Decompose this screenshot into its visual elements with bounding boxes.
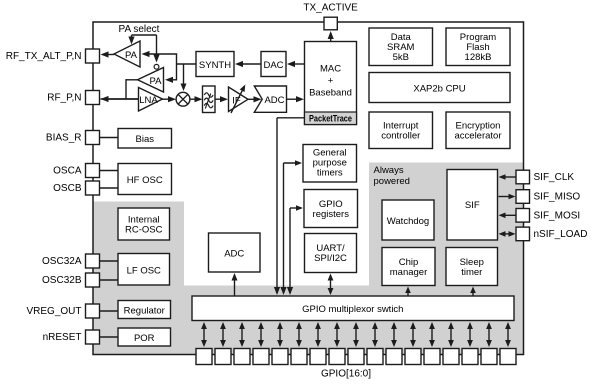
wire PA1 out to RF_TX_ALT pin <box>103 54 115 56</box>
svg-text:OSC32A: OSC32A <box>42 256 82 267</box>
wire SYNTH to mixer <box>183 64 185 89</box>
wire UART to GPIO mux <box>330 276 332 294</box>
svg-text:128kB: 128kB <box>465 52 492 63</box>
wire GPIO5 to mux <box>412 324 414 345</box>
pin GPIO10 <box>310 349 326 365</box>
block HF OSC <box>118 164 172 195</box>
always-powered domain (right block) <box>369 163 524 287</box>
wire GPIO13 to mux <box>260 324 262 345</box>
block Data SRAM 5kB <box>369 28 433 66</box>
svg-text:PacketTrace: PacketTrace <box>309 114 352 124</box>
block GPIO registers <box>304 190 358 228</box>
adc RF ADC <box>254 86 286 112</box>
pin GPIO14 <box>234 349 250 365</box>
wire GPIO3 to mux <box>450 324 452 345</box>
pin RF_TX_ALT_P,N <box>86 49 100 63</box>
pin GPIO6 <box>386 349 402 365</box>
svg-text:Regulator: Regulator <box>124 305 165 316</box>
wire DAC to SYNTH <box>237 63 261 65</box>
wire MAC to GPIO mux <box>277 117 305 119</box>
svg-text:Watchdog: Watchdog <box>387 216 429 227</box>
pin OSC32B <box>86 273 100 287</box>
wire nRESET stub <box>100 336 119 338</box>
wire RF_P_N <box>103 98 139 100</box>
svg-text:accelerator: accelerator <box>455 131 502 142</box>
wire SIF_MOSI <box>501 214 516 216</box>
block General purpose timers <box>303 145 357 183</box>
svg-text:PA: PA <box>150 76 163 87</box>
wire GPIO registers to GPIO mux <box>289 208 291 293</box>
chip boundary <box>93 22 524 355</box>
wire filter to IF amp <box>215 98 226 100</box>
wire PA2 out elbow <box>126 79 138 81</box>
wire GPIO10 to mux <box>317 324 319 345</box>
wire ADC to MAC <box>287 98 303 100</box>
wire GPIO mux to ADC <box>234 275 236 296</box>
pin GPIO3 <box>443 349 459 365</box>
wire GPIO8 to mux <box>355 324 357 345</box>
pin nRESET <box>86 330 100 344</box>
wire GPIO2 to mux <box>469 324 471 345</box>
svg-text:PA: PA <box>125 50 138 61</box>
wire BIAS_R stub <box>100 137 119 139</box>
wire VREG_OUT stub <box>100 310 119 312</box>
svg-text:MAC: MAC <box>320 64 341 75</box>
svg-text:RF_P,N: RF_P,N <box>47 93 81 104</box>
wire into PA1 <box>144 53 177 55</box>
wire MAC to TX_ACTIVE pin <box>330 33 332 42</box>
wire SIF_CLK <box>501 176 516 178</box>
block Sleep timer <box>446 248 498 286</box>
svg-text:nSIF_LOAD: nSIF_LOAD <box>534 229 588 240</box>
PA select net <box>132 34 157 36</box>
pin BIAS_R <box>86 131 100 145</box>
block SYNTH <box>196 52 234 77</box>
svg-text:VREG_OUT: VREG_OUT <box>26 306 81 317</box>
wire OSCB stub <box>100 187 119 189</box>
svg-text:SYNTH: SYNTH <box>199 60 231 71</box>
block GPIO multiplexor swtich <box>192 296 514 321</box>
svg-text:XAP2b CPU: XAP2b CPU <box>413 84 465 95</box>
pin GPIO1 <box>481 349 497 365</box>
wire timers to GPIO mux <box>283 163 285 293</box>
wire GPIO9 to mux <box>336 324 338 345</box>
always-powered domain (left strip) <box>93 202 184 355</box>
wire mixer to filter <box>190 98 201 100</box>
wire GPIO12 to mux <box>279 324 281 345</box>
mixer <box>176 92 190 106</box>
pin GPIO9 <box>329 349 345 365</box>
IF gain arrow <box>231 86 244 113</box>
wire OSC32A stub <box>100 260 119 262</box>
block SIF <box>447 170 498 241</box>
svg-text:RF_TX_ALT_P,N: RF_TX_ALT_P,N <box>6 51 82 62</box>
svg-text:SPI/I2C: SPI/I2C <box>314 253 347 264</box>
wire GPIO14 to mux <box>241 324 243 345</box>
pin GPIO2 <box>462 349 478 365</box>
always-powered domain (bottom band) <box>183 286 524 355</box>
amp PA2 <box>138 68 164 93</box>
svg-text:OSCB: OSCB <box>53 183 82 194</box>
block Bias <box>118 129 172 149</box>
pin OSCA <box>86 164 100 178</box>
svg-text:RC-OSC: RC-OSC <box>125 225 163 236</box>
svg-text:BIAS_R: BIAS_R <box>46 133 82 144</box>
wire LNA to mixer <box>163 98 175 100</box>
pin TX_ACTIVE <box>324 17 337 30</box>
pin nSIF_LOAD <box>516 227 530 241</box>
svg-text:ADC: ADC <box>264 95 284 106</box>
block XAP2b CPU <box>369 73 510 103</box>
wire GPIO11 to mux <box>298 324 300 345</box>
svg-text:controller: controller <box>381 131 420 142</box>
PA select to PA2 enable <box>156 35 158 61</box>
pin GPIO8 <box>348 349 364 365</box>
pin GPIO0 <box>500 349 516 365</box>
block DAC <box>261 52 286 77</box>
svg-text:timer: timer <box>461 267 482 278</box>
block Encryption accelerator <box>446 112 510 149</box>
pin SIF_MISO <box>516 190 530 204</box>
wire nSIF_LOAD <box>501 233 514 235</box>
wire GPIO mux to Sleep timer <box>472 289 474 297</box>
pin VREG_OUT <box>86 304 100 318</box>
wire SYNTH output <box>177 63 197 65</box>
wire GPIO16 to mux <box>203 324 205 345</box>
block ADC (general purpose) <box>209 233 261 272</box>
amp IF <box>229 87 249 112</box>
pin SIF_CLK <box>516 170 530 184</box>
svg-text:DAC: DAC <box>263 60 283 71</box>
svg-text:SIF_MISO: SIF_MISO <box>534 192 581 203</box>
svg-text:SIF: SIF <box>465 200 480 211</box>
block Interrupt controller <box>369 112 433 149</box>
svg-text:TX_ACTIVE: TX_ACTIVE <box>303 3 358 14</box>
amp LNA <box>139 88 163 112</box>
wire SIF_MISO <box>499 196 514 198</box>
pin OSCB <box>86 181 100 195</box>
pin GPIO16 <box>196 349 212 365</box>
svg-text:OSC32B: OSC32B <box>42 275 82 286</box>
wire IF to ADC <box>248 98 260 100</box>
svg-text:SIF_MOSI: SIF_MOSI <box>534 211 581 222</box>
block POR <box>118 328 171 346</box>
wire MAC to DAC <box>289 63 305 65</box>
svg-text:LF OSC: LF OSC <box>127 265 161 276</box>
svg-text:manager: manager <box>390 267 428 278</box>
pin GPIO5 <box>405 349 421 365</box>
pin GPIO13 <box>253 349 269 365</box>
svg-text:Baseband: Baseband <box>309 88 352 99</box>
svg-text:nRESET: nRESET <box>43 332 82 343</box>
svg-text:LNA: LNA <box>139 95 158 106</box>
wire OSC32B stub <box>100 279 119 281</box>
block Program Flash 128kB <box>446 28 510 66</box>
filter (IF bandpass) <box>203 86 216 113</box>
wire OSCA stub <box>100 170 119 172</box>
svg-text:OSCA: OSCA <box>53 166 82 177</box>
svg-text:powered: powered <box>374 176 410 187</box>
block Watchdog <box>382 200 434 240</box>
svg-text:registers: registers <box>313 209 350 220</box>
wire GPIO0 to mux <box>507 324 509 345</box>
wire GPIO15 to mux <box>222 324 224 345</box>
pin SIF_MOSI <box>516 209 530 223</box>
wire GPIO4 to mux <box>431 324 433 345</box>
pin GPIO15 <box>215 349 231 365</box>
pin GPIO7 <box>367 349 383 365</box>
pin RF_P,N <box>86 91 100 105</box>
svg-text:+: + <box>328 76 334 87</box>
wire into PA2 <box>167 79 177 81</box>
svg-text:Bias: Bias <box>136 134 155 145</box>
block UART/SPI/I2C <box>305 234 357 273</box>
block LF OSC <box>118 254 170 286</box>
wire GPIO7 to mux <box>374 324 376 345</box>
pin GPIO4 <box>424 349 440 365</box>
svg-text:HF OSC: HF OSC <box>127 175 163 186</box>
svg-text:PA select: PA select <box>119 24 160 35</box>
block MAC + Baseband <box>305 42 357 125</box>
svg-text:Always: Always <box>374 165 404 176</box>
PA2 enable bubble <box>154 64 159 69</box>
PacketTrace strip <box>305 112 357 125</box>
svg-text:GPIO multiplexor swtich: GPIO multiplexor swtich <box>302 304 403 315</box>
pin GPIO12 <box>272 349 288 365</box>
svg-text:5kB: 5kB <box>393 52 409 63</box>
wire GPIO mux to Chip manager <box>407 289 409 297</box>
svg-text:timers: timers <box>317 168 343 179</box>
svg-text:POR: POR <box>134 333 155 344</box>
svg-text:ADC: ADC <box>224 249 244 260</box>
pin OSC32A <box>86 254 100 268</box>
block Internal RC-OSC <box>118 208 170 240</box>
amp PA1 <box>114 41 140 67</box>
svg-text:SIF_CLK: SIF_CLK <box>534 172 575 183</box>
block Chip manager <box>382 248 435 286</box>
pin GPIO11 <box>291 349 307 365</box>
wire GPIO1 to mux <box>488 324 490 345</box>
block Regulator <box>118 301 171 319</box>
wire GPIO6 to mux <box>393 324 395 345</box>
wire TX split vertical <box>176 53 178 80</box>
svg-text:GPIO[16:0]: GPIO[16:0] <box>321 369 371 380</box>
